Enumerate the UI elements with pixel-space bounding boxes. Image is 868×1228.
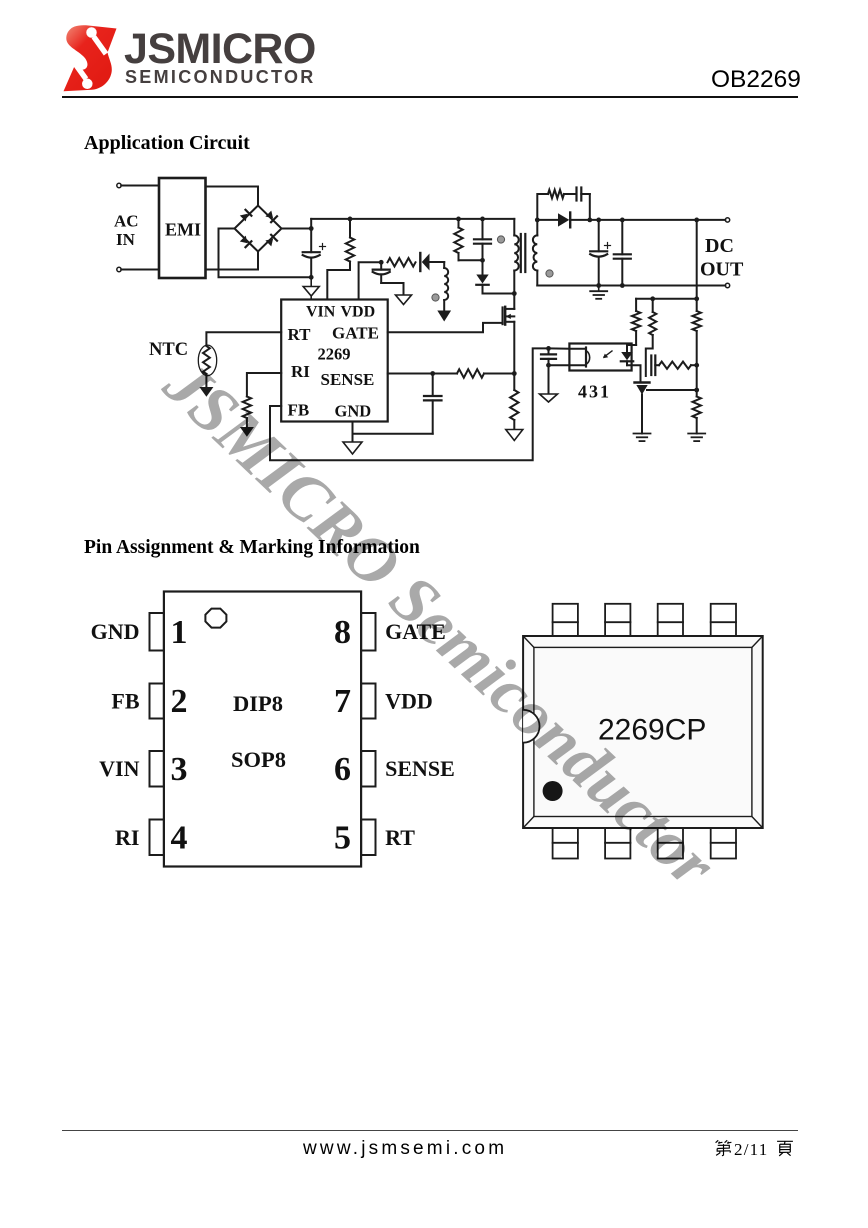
svg-text:VDD: VDD: [341, 304, 376, 321]
junction VDD cap: [379, 260, 384, 265]
wire EMI top to bridge: [206, 187, 259, 207]
output capacitor C6: [621, 220, 623, 254]
wire source down: [513, 322, 515, 374]
ground arrow G3: [437, 311, 451, 322]
pin 3 box: [150, 751, 164, 787]
logo white bond ball bottom: [82, 79, 93, 90]
pin1 indicator circle: [205, 609, 226, 628]
wire RT: [206, 332, 281, 345]
svg-text:IN: IN: [116, 230, 136, 249]
SOP8 bottom leads: [553, 828, 578, 859]
pin 7 box: [361, 684, 375, 719]
divider resistor R6: [693, 397, 701, 419]
footer rule: [62, 1130, 798, 1131]
svg-text:2269: 2269: [318, 345, 351, 364]
watermark: [149, 346, 730, 903]
svg-text:431: 431: [578, 382, 611, 402]
wire bridge plus to B+ node: [282, 228, 312, 230]
VDD feed resistor R2: [388, 258, 416, 266]
RI resistor R12: [243, 397, 251, 419]
wire bridge minus to bottom bus: [219, 229, 312, 278]
pin 5 box: [361, 820, 375, 856]
svg-text:SENSE: SENSE: [321, 370, 375, 389]
VDD capacitor C2: [380, 262, 382, 269]
wire divider mid: [696, 331, 698, 397]
transformer core: [520, 234, 522, 272]
header rule: [62, 96, 798, 98]
DC+ terminal: [725, 218, 729, 222]
junction drain: [512, 291, 517, 296]
wire DC- rail: [537, 285, 725, 287]
wire DC+ rail: [570, 219, 725, 221]
wire gate route: [388, 323, 503, 332]
svg-text:SOP8: SOP8: [231, 747, 286, 772]
wire secondary snubber right: [589, 194, 591, 220]
junction rail snubber R: [456, 217, 461, 222]
sense resistor R10: [433, 373, 457, 375]
SOP8 notch: [523, 710, 539, 743]
DIP8 package outline: [164, 592, 361, 867]
aux winding L1: [444, 268, 448, 300]
header wordmark SEMICONDUCTOR: [125, 67, 316, 88]
header wordmark JSMICRO: [124, 25, 316, 74]
junction out cap1: [596, 218, 601, 223]
wire GND stub down: [352, 434, 354, 442]
SOP8 body outer: [523, 636, 763, 828]
comp capacitor C7: [650, 356, 652, 376]
transformer secondary winding: [536, 220, 538, 236]
wire RI: [247, 373, 281, 397]
primary ground symbol G1: [310, 277, 312, 286]
wire bias branch: [636, 298, 697, 300]
secondary ground G4: [598, 286, 600, 292]
wire diode to aux winding: [443, 262, 445, 268]
opto LED D8: [621, 352, 633, 360]
NTC thermistor RT1: [198, 345, 216, 376]
secondary snubber resistor R4: [548, 190, 564, 198]
svg-text:VDD: VDD: [385, 689, 433, 714]
divider resistor R5: [693, 311, 701, 331]
junction divider top: [694, 218, 699, 223]
wire emitter to ground: [548, 365, 550, 394]
bridge diode D2: [265, 211, 273, 219]
svg-text:GND: GND: [91, 619, 140, 644]
aux polarity dot: [432, 294, 439, 301]
junction secondary top: [535, 218, 540, 223]
svg-text:GATE: GATE: [332, 324, 379, 343]
wire opto emitter: [549, 364, 570, 366]
junction bridge plus: [309, 226, 314, 231]
wire snubber to drain: [483, 293, 515, 295]
svg-text:DC: DC: [705, 235, 734, 257]
junction snubber out: [587, 218, 592, 223]
wire ground to VIN pin: [310, 296, 312, 300]
wire aux to ground: [443, 300, 445, 311]
ground arrow G11: [240, 427, 254, 437]
wire 431 cathode down: [641, 395, 643, 434]
DC- terminal: [725, 283, 729, 287]
wire B+ vertical: [310, 219, 312, 252]
pin 4 box: [150, 820, 164, 856]
svg-text:1: 1: [171, 614, 188, 651]
svg-text:RT: RT: [288, 325, 312, 344]
VDD diode D5: [419, 253, 421, 271]
header part number OB2269: [711, 66, 801, 94]
svg-text:8: 8: [334, 614, 351, 651]
wire 431 ref: [647, 389, 697, 391]
EMI filter block: [159, 178, 206, 278]
secondary snubber capacitor C4: [564, 193, 577, 195]
wire cap to GND pin: [353, 433, 433, 435]
bridge rectifier BD1 diamond: [235, 206, 282, 252]
footer url: [303, 1138, 507, 1160]
bias resistor R7: [632, 311, 640, 331]
svg-text:AC: AC: [114, 212, 139, 231]
svg-text:4: 4: [171, 820, 188, 857]
ground symbol G9: [343, 442, 362, 454]
bridge diode D3: [240, 236, 248, 244]
wire bias to R7: [635, 299, 637, 311]
optocoupler U2 box: [569, 344, 631, 371]
output capacitor C5: [598, 220, 600, 251]
logo white slash top: [92, 35, 109, 55]
wire startup resistor to VIN: [327, 262, 350, 300]
wire VDD pin up: [359, 262, 382, 299]
secondary polarity dot: [546, 270, 553, 277]
transformer primary winding: [513, 219, 515, 236]
svg-text:DIP8: DIP8: [233, 691, 283, 716]
junction comp branch: [650, 296, 655, 301]
ground arrow G10: [199, 387, 213, 397]
snubber resistor R3: [458, 219, 460, 228]
primary polarity dot: [497, 236, 504, 243]
opto capacitor C8: [548, 348, 550, 354]
SOP8 top leads: [553, 604, 578, 636]
pin 6 box: [361, 751, 375, 787]
ground symbol G8: [506, 430, 523, 441]
wire comp to cap: [646, 335, 653, 376]
heading Pin Assignment: [84, 537, 420, 559]
junction comp node: [694, 363, 699, 368]
junction rail startup: [348, 217, 353, 222]
svg-text:RI: RI: [115, 825, 139, 850]
wire FB route: [270, 348, 569, 460]
pin1 dot marker: [543, 781, 563, 801]
svg-text:RT: RT: [385, 825, 415, 850]
bulk capacitor C1: [303, 251, 320, 253]
svg-text:FB: FB: [111, 689, 139, 714]
pin 8 box: [361, 613, 375, 651]
junction out cap2 bottom: [620, 283, 625, 288]
svg-text:EMI: EMI: [165, 220, 201, 240]
junction snubber RC: [480, 258, 485, 263]
JSMICRO logo red S: [64, 25, 117, 91]
junction sense: [430, 371, 435, 376]
wire comp branch: [652, 299, 654, 312]
svg-text:FB: FB: [288, 401, 310, 420]
svg-text:2: 2: [171, 683, 188, 720]
comp resistor R8: [649, 312, 656, 335]
ground symbol G7: [540, 394, 558, 402]
junction opto cap bottom: [546, 363, 551, 368]
sense resistor R11: [513, 374, 515, 391]
footer page number: [714, 1139, 733, 1158]
snubber diode D6: [482, 260, 484, 274]
wire R7 to opto: [635, 331, 637, 345]
wire opto LED out: [627, 365, 641, 381]
ground symbol G2: [396, 295, 412, 305]
AC input terminal top: [117, 183, 121, 187]
junction ref node: [694, 388, 699, 393]
svg-text:7: 7: [334, 683, 351, 720]
svg-text:5: 5: [334, 820, 351, 857]
logo white bond ball top: [86, 27, 97, 38]
SOP8 body inner: [534, 647, 752, 816]
wire B+ rail: [311, 218, 514, 220]
junction out cap2: [620, 218, 625, 223]
startup resistor R1: [346, 238, 354, 262]
junction bottom bus: [309, 275, 314, 280]
svg-text:RI: RI: [291, 362, 310, 381]
AC input terminal bottom: [117, 267, 121, 271]
junction source sense: [512, 371, 517, 376]
svg-text:OUT: OUT: [700, 259, 744, 281]
logo white slash bottom: [73, 62, 89, 81]
svg-text:3: 3: [171, 751, 188, 788]
bridge diode D1: [240, 214, 248, 222]
svg-text:GND: GND: [335, 402, 372, 421]
wire SENSE: [388, 373, 433, 375]
header logo: [62, 22, 122, 96]
output cap plus mark: [605, 245, 611, 247]
bridge diode D4: [265, 239, 273, 247]
wire VDD cap to ground: [381, 283, 403, 295]
IC U1 2269 box: [281, 300, 388, 422]
comp resistor R9: [659, 362, 691, 369]
wire EMI bottom to bridge: [206, 252, 259, 270]
wire snubber R to C: [459, 259, 483, 261]
opto light arrows: [604, 351, 612, 357]
svg-text:VIN: VIN: [99, 756, 139, 781]
pin 1 box: [150, 613, 164, 651]
heading Application Circuit: [84, 132, 250, 155]
svg-text:NTC: NTC: [149, 340, 188, 360]
output diode D7: [537, 219, 558, 221]
snubber capacitor C3: [482, 219, 484, 239]
opto phototransistor: [585, 348, 587, 367]
bulk cap plus mark: [320, 246, 326, 248]
wire divider vertical: [696, 220, 698, 311]
shunt regulator 431: [635, 381, 650, 383]
svg-text:VIN: VIN: [306, 304, 336, 321]
wire divider bottom: [696, 418, 698, 434]
junction opto cap top: [546, 346, 551, 351]
wire rail to startup resistor: [349, 219, 351, 238]
svg-text:6: 6: [334, 751, 351, 788]
power MOSFET Q1: [502, 308, 504, 325]
junction bias branch: [694, 296, 699, 301]
svg-text:SENSE: SENSE: [385, 756, 455, 781]
431 ground G6: [634, 433, 651, 435]
sense filter capacitor C9: [432, 374, 434, 396]
wire secondary snubber left: [537, 194, 548, 220]
divider ground G5: [688, 433, 705, 435]
pin 2 box: [150, 684, 164, 719]
junction rail snubber C: [480, 217, 485, 222]
junction out cap1 bottom: [596, 283, 601, 288]
SOP8 bevel corners: [523, 636, 763, 828]
